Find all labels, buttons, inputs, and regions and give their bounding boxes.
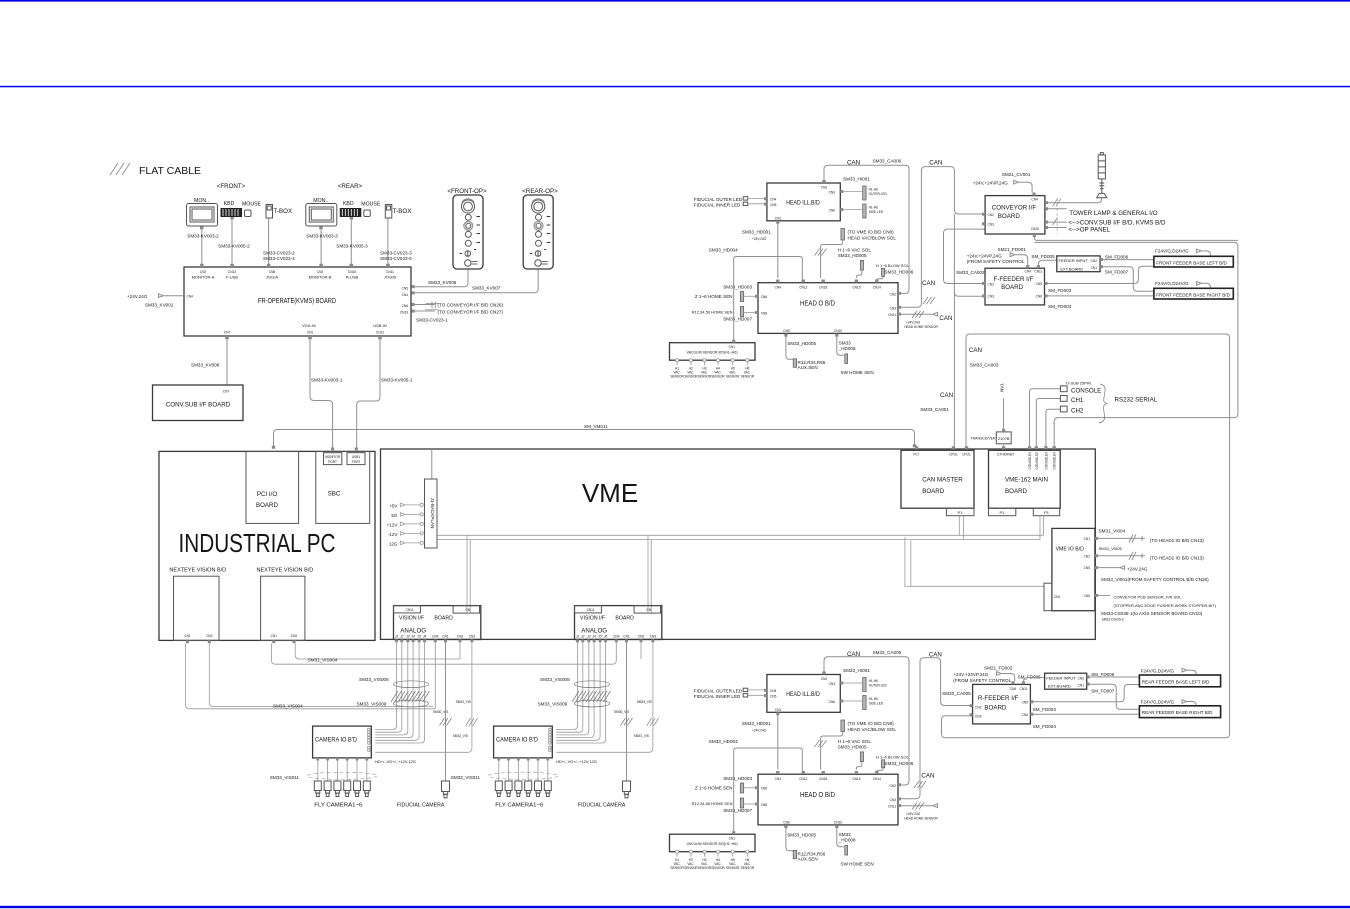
- svg-text:PCI I/O: PCI I/O: [257, 491, 277, 498]
- svg-text:CN2: CN2: [890, 292, 897, 296]
- blow sol bar: [882, 268, 885, 276]
- wire CN6 r to right b/d: [1033, 713, 1139, 715]
- REAR console set: [306, 198, 412, 230]
- svg-text:CN11: CN11: [888, 313, 896, 317]
- svg-text:SM33_VIS004: SM33_VIS004: [273, 704, 303, 709]
- svg-text:PORT: PORT: [352, 460, 361, 464]
- wire SM_FD007 to right b/d: [1103, 267, 1154, 291]
- conveyor right wires: [1048, 198, 1102, 203]
- svg-text:R12,R34,R56: R12,R34,R56: [798, 360, 826, 365]
- board PCI I/O: [246, 451, 299, 523]
- svg-text:CN19: CN19: [400, 311, 408, 315]
- svg-text:CN2: CN2: [988, 213, 995, 217]
- svg-text:SM_FD006: SM_FD006: [1105, 255, 1129, 260]
- svg-text:CH2: CH2: [1071, 408, 1084, 415]
- svg-text:CN: CN: [465, 608, 470, 612]
- vacuum sensor labels: [670, 367, 754, 379]
- svg-text:CN1: CN1: [307, 331, 314, 335]
- svg-text:FLAT CABLE: FLAT CABLE: [139, 165, 201, 177]
- svg-text:(TO CONVEYOR I/F B/D CN26): (TO CONVEYOR I/F B/D CN26): [438, 303, 504, 308]
- svg-text:CAN: CAN: [940, 392, 953, 399]
- svg-text:<REAR>: <REAR>: [338, 183, 363, 190]
- svg-text:(FROM SAFETY CONTROL: (FROM SAFETY CONTROL: [967, 259, 1025, 264]
- svg-text:MONITOR-A: MONITOR-A: [192, 274, 215, 279]
- svg-text:SBC: SBC: [328, 491, 341, 498]
- svg-text:J1: J1: [395, 634, 399, 638]
- svg-text:SM31_VI004: SM31_VI004: [1099, 529, 1126, 534]
- tower lamp icon: [1097, 153, 1107, 198]
- board VACUUM SENSOR: [670, 343, 756, 361]
- svg-text:SM_FD004: SM_FD004: [1048, 304, 1072, 309]
- svg-text:SIDE LED: SIDE LED: [869, 210, 884, 214]
- svg-text:J4: J4: [411, 634, 415, 638]
- svg-text:CN12: CN12: [799, 286, 807, 290]
- board CAN MASTER: [901, 450, 974, 508]
- rotated console pin labels: [1028, 452, 1057, 470]
- board FR-OPERATE(KVMS): [184, 267, 411, 336]
- svg-text:BOARD: BOARD: [256, 502, 279, 509]
- board NEXTEYE VISION 2: [261, 576, 305, 640]
- board CONVEYOR I/F: [985, 196, 1045, 234]
- svg-text:SM_FD005: SM_FD005: [1031, 254, 1055, 259]
- svg-text:SM33_KV007: SM33_KV007: [472, 286, 501, 291]
- svg-text:SM33-KV005-1: SM33-KV005-1: [381, 378, 413, 383]
- svg-text:SM33_KV006: SM33_KV006: [428, 280, 457, 285]
- wire SM33-KV003-1 VGA-IN down to SBC monitor port: [310, 339, 333, 450]
- svg-text:MONITOR: MONITOR: [325, 455, 341, 459]
- svg-text:EXT.BOARD: EXT.BOARD: [1048, 684, 1071, 689]
- svg-text:BOARD: BOARD: [434, 616, 453, 622]
- svg-text:CN8: CN8: [269, 270, 276, 274]
- svg-text:VME-162 MAIN: VME-162 MAIN: [1005, 476, 1048, 483]
- RS232 squares: [1060, 386, 1067, 392]
- wire CN9 to aux.sen bar: [786, 337, 793, 360]
- svg-text:FR-OPERATE(KVMS) BOARD: FR-OPERATE(KVMS) BOARD: [258, 296, 336, 305]
- wire CN1 down to fiducial camera: [445, 642, 447, 780]
- svg-text:HD+/-,VD+/-,+12V,12G: HD+/-,VD+/-,+12V,12G: [375, 759, 416, 764]
- NV1 stub: [1003, 398, 1005, 428]
- dashed ellipse SM33_VIS011: [307, 772, 377, 779]
- svg-text:F24V/G,D24V/G: F24V/G,D24V/G: [1141, 700, 1175, 705]
- FRONT console set: [187, 198, 293, 230]
- svg-text:CN1: CN1: [775, 217, 782, 221]
- svg-text:F24V/G,D24V/G: F24V/G,D24V/G: [1155, 249, 1189, 254]
- svg-text:CN6: CN6: [1084, 594, 1091, 598]
- board R-FEEDER I/F: [973, 684, 1031, 724]
- svg-text:CN1: CN1: [442, 634, 449, 638]
- svg-text:SM_FD004: SM_FD004: [1033, 724, 1057, 729]
- svg-text:CN2: CN2: [457, 634, 464, 638]
- svg-text:AUX.SEN: AUX.SEN: [798, 365, 818, 370]
- svg-text:F-USB: F-USB: [226, 274, 238, 279]
- svg-text:SM33_KV008: SM33_KV008: [191, 363, 220, 368]
- svg-text:SM33_VIS: SM33_VIS: [456, 700, 471, 704]
- svg-text:+24V,+24VP,24G: +24V,+24VP,24G: [953, 672, 988, 677]
- wire SM33_HD004 vacuum to CN12: [734, 257, 803, 340]
- svg-text:VME IO B/D: VME IO B/D: [1056, 547, 1085, 553]
- svg-text:SENSOR: SENSOR: [726, 375, 740, 379]
- svg-text:CN4: CN4: [187, 295, 194, 299]
- FR board top pin connector symbols: [200, 264, 390, 267]
- svg-text:SM33_HD005: SM33_HD005: [838, 253, 867, 258]
- svg-text:CAN: CAN: [847, 651, 860, 658]
- svg-text:(TO CONVEYOR I/F B/D CN27): (TO CONVEYOR I/F B/D CN27): [438, 310, 504, 315]
- svg-text:+24V,24G: +24V,24G: [127, 294, 148, 299]
- wire monitor-A to CN2: [201, 230, 203, 266]
- console4 wire to line B: [1034, 242, 1238, 446]
- svg-text:CAN: CAN: [929, 651, 942, 658]
- svg-text:CN1: CN1: [271, 634, 278, 638]
- svg-text:SM33_HD005: SM33_HD005: [787, 341, 816, 346]
- wires SBC ports up: [331, 448, 358, 451]
- svg-text:+24V,24G: +24V,24G: [906, 320, 921, 324]
- tab CN11: [394, 606, 421, 613]
- svg-text:CN4: CN4: [432, 634, 439, 638]
- svg-text:FRONT FEEDER BASE RIGHT B/D: FRONT FEEDER BASE RIGHT B/D: [1156, 292, 1230, 297]
- svg-text:+5V: +5V: [389, 504, 398, 509]
- blue top rule 2: [0, 86, 1350, 88]
- legend: FLAT CABLE hatch symbol: [110, 163, 130, 175]
- svg-text:NEXTEYE VISION B/D: NEXTEYE VISION B/D: [257, 568, 314, 574]
- svg-text:SM21_FD002: SM21_FD002: [984, 666, 1013, 671]
- svg-text:<FRONT>: <FRONT>: [217, 183, 246, 190]
- svg-text:JOG/A: JOG/A: [266, 274, 278, 279]
- svg-text:FRONT FEEDER BASE LEFT B/D: FRONT FEEDER BASE LEFT B/D: [1156, 260, 1227, 265]
- wire CN6 to right b/d: [1048, 295, 1154, 297]
- svg-text:CN3: CN3: [890, 306, 897, 310]
- wire SM33_KV006 from FRONT-OP: [415, 270, 468, 287]
- wire CN10 to sw home bar: [837, 337, 844, 356]
- wire CAN SM33_CA006-2: ILL CN2 to IO CN2: [824, 657, 909, 785]
- wire SM_VM011 bus: [274, 430, 915, 449]
- svg-text:SM33_VIS: SM33_VIS: [453, 734, 468, 738]
- svg-text:SM_FD007: SM_FD007: [1105, 269, 1129, 274]
- hatch on CAN wires near head1: [923, 297, 935, 304]
- vacuum sensor pins: [676, 359, 749, 366]
- svg-text:R-FEEDER I/F: R-FEEDER I/F: [978, 695, 1019, 702]
- svg-text:SM33_HD007: SM33_HD007: [723, 317, 752, 322]
- svg-text:OUTER LED: OUTER LED: [869, 192, 888, 196]
- board CONV.SUB I/F: [153, 385, 244, 421]
- svg-text:SM33_HD001: SM33_HD001: [742, 230, 771, 235]
- svg-text:CN13: CN13: [228, 270, 236, 274]
- svg-text:CPU1: CPU1: [962, 453, 971, 457]
- svg-text:SENSOR: SENSOR: [711, 375, 725, 379]
- head cluster 2 (lower copy): [670, 668, 939, 870]
- svg-text:H 1~6 BLOW SOL: H 1~6 BLOW SOL: [876, 263, 910, 268]
- svg-text:FIDUCIAL CAMERA: FIDUCIAL CAMERA: [397, 803, 445, 809]
- svg-text:(TO VME IO B/D CN8): (TO VME IO B/D CN8): [848, 230, 895, 235]
- svg-text:SM33_HD003: SM33_HD003: [723, 285, 752, 290]
- board SBC: [316, 451, 370, 523]
- board FRONT FEEDER BASE LEFT: [1154, 256, 1233, 267]
- svg-text:CN4: CN4: [1010, 687, 1017, 691]
- svg-text:CAN: CAN: [969, 347, 982, 354]
- svg-text:CONVEYOR PCB SENSOR, F/R SOL: CONVEYOR PCB SENSOR, F/R SOL: [1114, 594, 1183, 599]
- P1 tab CAN MASTER: [946, 508, 974, 516]
- svg-text:REAR FEEDER BASE RIGHT B/D: REAR FEEDER BASE RIGHT B/D: [1142, 710, 1213, 715]
- svg-text:F24V/G,D24V/G: F24V/G,D24V/G: [1141, 668, 1175, 673]
- svg-text:CN5: CN5: [1084, 566, 1091, 570]
- svg-text:CN6: CN6: [1036, 295, 1043, 299]
- svg-text:SM33_HI001: SM33_HI001: [843, 176, 870, 181]
- svg-text:SM33-KV003-3: SM33-KV003-3: [306, 234, 338, 239]
- svg-text:(STOPPER,ANC,EDGE PUSHER,WORK: (STOPPER,ANC,EDGE PUSHER,WORK STOPPER,BI…: [1114, 603, 1217, 608]
- P1 backplane bus (double line): [437, 535, 1044, 539]
- svg-text:CN3: CN3: [988, 223, 995, 227]
- wire CN6 stub: [1098, 594, 1110, 596]
- svg-text:SM33-CV023-4: SM33-CV023-4: [263, 256, 295, 261]
- wire CAN: IO2 CN3 up and to R-FEEDER CN2: [901, 658, 972, 799]
- fly cameras 1-6: [314, 781, 370, 797]
- svg-text:R12,34,56 HOME SEN: R12,34,56 HOME SEN: [692, 309, 733, 314]
- svg-text:CN15: CN15: [348, 270, 356, 274]
- svg-text:SM33_CA001: SM33_CA001: [920, 407, 949, 412]
- svg-text:+12V: +12V: [387, 523, 399, 528]
- svg-text:CN11: CN11: [406, 608, 414, 612]
- svg-text:CN14: CN14: [873, 286, 881, 290]
- wire SM33-KV005-1 USB-IN down to SBC usb port: [357, 339, 380, 450]
- svg-text:SM33-CV023-5: SM33-CV023-5: [380, 256, 412, 261]
- branch conveyor CN3 down to f-feeder CN2: [944, 229, 986, 283]
- coil symbol bottom: [393, 700, 429, 707]
- svg-text:SM33-KV003-2: SM33-KV003-2: [187, 234, 219, 239]
- svg-text:CN2: CN2: [988, 283, 995, 287]
- svg-text:SM33_CA002: SM33_CA002: [956, 270, 985, 275]
- svg-text:SM33_VI001(FROM SAFETY CONTROL: SM33_VI001(FROM SAFETY CONTROL B/D CN26): [1101, 577, 1209, 582]
- wire CN5 to left b/d: [1048, 266, 1154, 283]
- board VISION I/F: [394, 606, 481, 640]
- wire vision1 CN4 down to pair1: [434, 642, 436, 709]
- svg-text:SM33-CS035-1(to AXIS SENSOR BO: SM33-CS035-1(to AXIS SENSOR BOARD CN10): [1101, 611, 1203, 616]
- svg-text:ETHERNET: ETHERNET: [997, 453, 1014, 457]
- svg-text:SM33_HD004: SM33_HD004: [709, 247, 738, 252]
- svg-text:SM33-KV005-3: SM33-KV005-3: [336, 244, 368, 249]
- svg-text:RS232 SERIAL: RS232 SERIAL: [1115, 397, 1158, 404]
- svg-text:CN3: CN3: [988, 295, 995, 299]
- svg-text:SM31_VIS004: SM31_VIS004: [308, 658, 338, 663]
- svg-text:HEAD HOME SENSOR: HEAD HOME SENSOR: [904, 325, 938, 329]
- svg-text:J6: J6: [423, 634, 427, 638]
- svg-text:CN11: CN11: [1020, 687, 1028, 691]
- svg-text:VGA-IN: VGA-IN: [302, 323, 316, 328]
- svg-text:SM31_VI005: SM31_VI005: [1099, 546, 1123, 551]
- bus drop to vision tab 2: [648, 535, 651, 613]
- svg-text:SM33_VIS009: SM33_VIS009: [357, 701, 387, 706]
- svg-text:REAR FEEDER BASE LEFT B/D: REAR FEEDER BASE LEFT B/D: [1142, 679, 1210, 684]
- svg-text:CN1: CN1: [1054, 595, 1061, 599]
- connector J1-BACKPLAN: [431, 449, 433, 479]
- wire SM_FD007 r: [1090, 684, 1140, 709]
- svg-text:P1: P1: [1044, 510, 1050, 515]
- side led bar: [863, 204, 866, 218]
- P1 tabs VME-162: [989, 508, 1016, 516]
- svg-text:CN4: CN4: [1031, 198, 1038, 202]
- svg-text:SM21_FD001: SM21_FD001: [998, 247, 1027, 252]
- wire CAN loop SM33_CA003: R-FEEDER CN3 to CPU1#2: [942, 334, 1230, 738]
- svg-text:<FRONT-OP>: <FRONT-OP>: [447, 188, 487, 195]
- svg-text:CN4: CN4: [775, 286, 782, 290]
- board F-FEEDER I/F: [985, 268, 1045, 305]
- svg-text:BOARD: BOARD: [998, 213, 1021, 220]
- svg-text:SM33-CV023-2: SM33-CV023-2: [263, 251, 295, 256]
- svg-text:CN8: CN8: [761, 311, 768, 315]
- bar (TO VME IO B/D CN8): [841, 229, 845, 241]
- board HEAD O B/D: [758, 283, 898, 334]
- nexteye wire pair 1: board2 CN1/CN2 to vision2 CN4: [272, 642, 617, 664]
- svg-text:BOARD: BOARD: [1001, 284, 1024, 291]
- svg-text:SM33-KV005-2: SM33-KV005-2: [218, 244, 250, 249]
- svg-text:CONSOLE4: CONSOLE4: [1053, 452, 1057, 470]
- svg-text:CAN MASTER: CAN MASTER: [922, 476, 963, 483]
- svg-text:SM_FD003: SM_FD003: [1033, 707, 1057, 712]
- svg-text:FLY CAMERA1~6: FLY CAMERA1~6: [314, 803, 362, 809]
- connector symbols nexteye pins: [186, 640, 296, 643]
- RS232 bracket: [1099, 384, 1107, 423]
- svg-text:(FROM SAFETY CONTROL: (FROM SAFETY CONTROL: [953, 678, 1011, 683]
- branch f-feeder CN3 to bus: [954, 292, 985, 297]
- svg-text:(TO HEAD2 IO B/D CN13): (TO HEAD2 IO B/D CN13): [1150, 555, 1205, 560]
- svg-text:INDUSTRIAL PC: INDUSTRIAL PC: [179, 528, 336, 558]
- box VME: [381, 449, 1096, 639]
- console wires from VME-162: [1030, 389, 1061, 447]
- svg-text:CN2: CN2: [206, 634, 213, 638]
- svg-text:USB1: USB1: [352, 455, 361, 459]
- svg-text:CAN: CAN: [939, 315, 952, 322]
- wire CN5 r to left b/d: [1033, 685, 1139, 702]
- svg-text:CN7: CN7: [223, 390, 230, 394]
- svg-text:HEAD VAC/BLOW SOL: HEAD VAC/BLOW SOL: [848, 235, 897, 240]
- svg-text:CN4: CN4: [1025, 270, 1032, 274]
- board VME IO B/D: [1052, 528, 1095, 610]
- svg-text:CN10: CN10: [834, 329, 842, 333]
- CN11 stub with hatch: [901, 312, 938, 316]
- svg-text:SENSOR: SENSOR: [684, 375, 698, 379]
- svg-text:SM33_CA003: SM33_CA003: [970, 363, 999, 368]
- svg-text:CH1: CH1: [1071, 397, 1084, 404]
- svg-text:CN2: CN2: [975, 706, 982, 710]
- svg-text:BOARD: BOARD: [922, 488, 945, 495]
- wire CN3 down to HD line: [375, 642, 472, 752]
- svg-text:H1-H6: H1-H6: [869, 187, 878, 191]
- vac sol bar: [860, 260, 863, 270]
- svg-text:SM33_VIS008: SM33_VIS008: [359, 677, 389, 682]
- svg-text:SM_FD007: SM_FD007: [1091, 689, 1115, 694]
- svg-text:P1: P1: [958, 510, 964, 515]
- wire SM33_KV008 CN7 down: [226, 339, 228, 385]
- svg-text:SM33_CA006: SM33_CA006: [873, 159, 902, 164]
- svg-text:CN5: CN5: [402, 286, 409, 290]
- svg-text:TRANSCEIVER: TRANSCEIVER: [971, 436, 996, 441]
- svg-text:P1: P1: [1000, 510, 1006, 515]
- svg-text:SM_FD003: SM_FD003: [1048, 288, 1072, 293]
- bottom pins + wires to cameras: [316, 758, 368, 761]
- svg-text:BOARD: BOARD: [984, 705, 1007, 712]
- svg-text:CN1: CN1: [184, 634, 191, 638]
- home sensor bar CN6: [740, 292, 743, 302]
- camera cluster 2: [451, 606, 662, 809]
- svg-text:SM33-CV023-3: SM33-CV023-3: [380, 251, 412, 256]
- svg-text:CAN: CAN: [929, 160, 942, 167]
- wire tbox-A to CN8: [268, 219, 270, 267]
- svg-text:<REAR-OP>: <REAR-OP>: [522, 188, 558, 195]
- svg-text:CN2: CN2: [200, 270, 207, 274]
- svg-text:SM33-KV003-1: SM33-KV003-1: [311, 378, 343, 383]
- svg-text:BOARD: BOARD: [1005, 488, 1028, 495]
- svg-text:NEXTEYE VISION B/D: NEXTEYE VISION B/D: [169, 568, 226, 574]
- svg-text:SM21_CV001: SM21_CV001: [1002, 172, 1031, 177]
- home sensor bar CN8: [740, 307, 743, 317]
- svg-text:+24V,24G: +24V,24G: [1127, 567, 1148, 572]
- wire kbd-B to CN15: [350, 220, 352, 266]
- svg-text:F-FEEDER I/F: F-FEEDER I/F: [994, 276, 1034, 283]
- svg-text:J5: J5: [417, 634, 421, 638]
- svg-text:_HD008: _HD008: [838, 346, 856, 351]
- svg-text:CN9: CN9: [783, 329, 790, 333]
- wire ILL CN1 to IO CN4: [777, 224, 779, 278]
- svg-text:EXT.BOARD: EXT.BOARD: [1060, 266, 1083, 271]
- board FRONT FEEDER BASE RIGHT: [1154, 288, 1233, 299]
- camera io right pin circles: [368, 728, 371, 751]
- svg-text:CN5: CN5: [1022, 701, 1029, 705]
- svg-text:CN11: CN11: [386, 270, 394, 274]
- SBC usb1 port: [347, 453, 365, 465]
- svg-text:CAN: CAN: [921, 773, 934, 780]
- wire SM_FD006 r: [1090, 676, 1140, 678]
- svg-text:CN11: CN11: [1034, 270, 1042, 274]
- fiducial camera icon: [442, 781, 450, 798]
- svg-text:CN3: CN3: [829, 190, 836, 194]
- wire CAN: IO CN3 up to bus: [901, 167, 985, 308]
- blue top rule 1: [0, 0, 1350, 2]
- bus drop to vision tab 1: [467, 535, 470, 613]
- svg-text:CN6: CN6: [829, 208, 836, 212]
- svg-text:H 1~6 VAC SOL: H 1~6 VAC SOL: [838, 247, 872, 252]
- svg-text:CONV.SUB I/F BOARD: CONV.SUB I/F BOARD: [166, 402, 231, 409]
- svg-text:CONSOLE: CONSOLE: [1071, 387, 1101, 394]
- svg-text:VACUUM SENSOR B'D(H1~H6): VACUUM SENSOR B'D(H1~H6): [687, 351, 738, 355]
- svg-text:FIDUCIAL OUTER LED: FIDUCIAL OUTER LED: [694, 197, 743, 202]
- box INDUSTRIAL PC: [159, 451, 375, 640]
- svg-text:SM33_VIS011: SM33_VIS011: [270, 775, 300, 780]
- svg-text:SM33_CA006: SM33_CA006: [873, 650, 902, 655]
- hatch on CN3 wire: [466, 718, 478, 726]
- wire kbd to CN13: [231, 220, 233, 266]
- board REAR FEEDER BASE LEFT: [1139, 675, 1220, 687]
- svg-text:CN6: CN6: [402, 304, 409, 308]
- wire CN5 +24V: [1098, 566, 1125, 570]
- svg-text:CN2: CN2: [291, 634, 298, 638]
- J1-J6 wire bundle down to camera io: [375, 642, 424, 743]
- hatch on fiducial wire: [440, 718, 452, 726]
- svg-text:CAMERA IO B'D: CAMERA IO B'D: [315, 737, 357, 744]
- svg-text:SM_VM011: SM_VM011: [584, 424, 608, 429]
- svg-text:CONVEYOR I/F: CONVEYOR I/F: [992, 205, 1037, 212]
- svg-text:CN12: CN12: [376, 331, 384, 335]
- svg-text:+24V,24G: +24V,24G: [752, 237, 767, 241]
- svg-text:Z 1~6 HOME SEN: Z 1~6 HOME SEN: [695, 294, 733, 299]
- board CAMERA IO B/D: [313, 726, 372, 758]
- svg-text:D-SUB 25PIN: D-SUB 25PIN: [1066, 380, 1091, 385]
- svg-text:CPU1: CPU1: [949, 453, 958, 457]
- svg-text:CN18: CN18: [819, 286, 827, 290]
- svg-text:HEAD O B/D: HEAD O B/D: [800, 299, 835, 308]
- wire SM_FD006 to left b/d: [1103, 259, 1154, 261]
- svg-text:CN7: CN7: [224, 331, 231, 335]
- tab CN: [453, 606, 479, 614]
- front OP panel: [453, 195, 483, 269]
- bus branch down to VME IO CN1: [905, 537, 1045, 586]
